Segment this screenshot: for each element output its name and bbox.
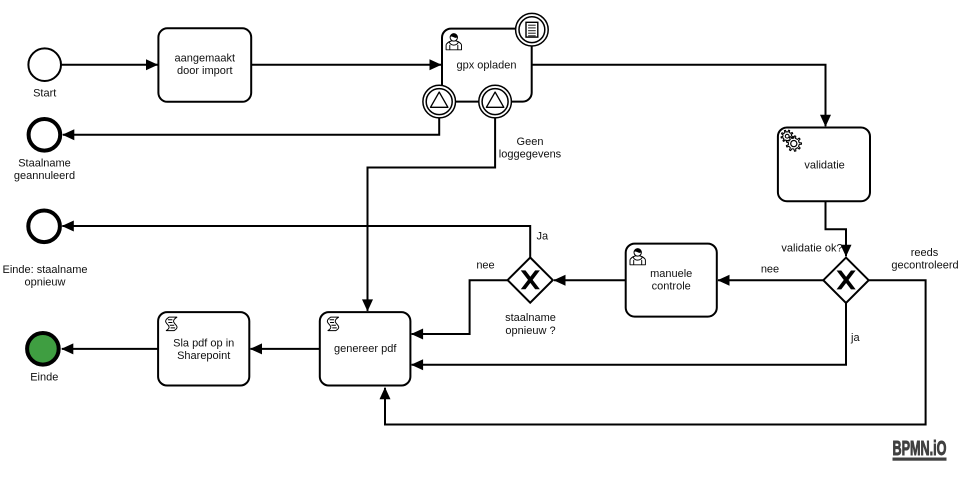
end event Staalname geannuleerd: [29, 119, 61, 151]
boundary event signal 1 (on gpx opladen): [423, 85, 456, 118]
end event Einde (green): [27, 333, 59, 365]
wire gateway staalname opnieuw to Einde staalname opnieuw (Ja): [62, 226, 530, 258]
gateway validatie ok? (exclusive): [823, 258, 868, 303]
start event Start: [28, 48, 61, 81]
svg-text:aangemaakt: aangemaakt: [175, 52, 236, 64]
svg-text:ja: ja: [850, 332, 860, 344]
logo BPMN.iO: [893, 437, 947, 461]
icon script (Sla pdf): [166, 317, 177, 330]
svg-text:Ja: Ja: [537, 231, 550, 243]
icon user (gpx opladen): [446, 33, 461, 50]
wire aangemaakt door import to gpx opladen: [251, 64, 441, 66]
gateway staalname opnieuw? (exclusive): [508, 258, 553, 303]
wire gpx opladen to validatie: [532, 65, 826, 127]
task genereer pdf (script task): [320, 312, 411, 385]
wire validatie to gateway validatie ok: [826, 201, 847, 256]
svg-text:door import: door import: [177, 65, 233, 77]
task gpx opladen (user task): [442, 29, 532, 102]
task Sla pdf op in Sharepoint (script task): [158, 312, 249, 385]
svg-text:staalname: staalname: [505, 312, 556, 324]
task manuele controle (user task): [626, 244, 717, 317]
wire gateway staalname opnieuw to genereer pdf (nee): [412, 280, 508, 334]
wire genereer pdf to Sla pdf op in Sharepoint: [251, 348, 320, 350]
svg-text:Einde: Einde: [30, 372, 58, 384]
end event Einde: staalname opnieuw: [28, 211, 60, 243]
svg-text:gecontroleerd: gecontroleerd: [891, 259, 958, 271]
svg-text:controle: controle: [652, 280, 691, 292]
svg-text:opnieuw: opnieuw: [25, 276, 66, 288]
task validatie (service task): [778, 128, 870, 202]
svg-text:genereer pdf: genereer pdf: [334, 343, 397, 355]
icon service gears (validatie): [781, 130, 801, 151]
svg-text:nee: nee: [761, 264, 779, 276]
boundary event conditional (on gpx opladen): [516, 13, 549, 46]
svg-text:validatie ok?: validatie ok?: [781, 243, 842, 255]
wire signal boundary 2 to genereer pdf (Geen loggegevens): [368, 118, 496, 311]
svg-text:nee: nee: [476, 260, 494, 272]
svg-text:loggegevens: loggegevens: [499, 148, 562, 160]
wire gateway validatie ok to genereer pdf bottom (reeds gecontroleerd): [385, 280, 926, 424]
svg-text:Staalname: Staalname: [18, 158, 71, 170]
svg-text:validatie: validatie: [804, 159, 844, 171]
svg-text:Sharepoint: Sharepoint: [177, 350, 230, 362]
wire Sla pdf op in Sharepoint to Einde: [62, 348, 158, 350]
wire signal boundary 1 to Staalname geannuleerd: [63, 118, 439, 135]
svg-text:opnieuw ?: opnieuw ?: [505, 325, 555, 337]
svg-text:Einde: staalname: Einde: staalname: [3, 264, 88, 276]
icon user (manuele controle): [630, 248, 645, 265]
wire Start to aangemaakt door import: [62, 64, 158, 66]
task aangemaakt door import: [158, 28, 251, 102]
svg-text:reeds: reeds: [911, 247, 939, 259]
svg-text:Geen: Geen: [517, 136, 544, 148]
svg-text:BPMN.iO: BPMN.iO: [893, 437, 947, 460]
svg-text:manuele: manuele: [650, 268, 692, 280]
wire gateway validatie ok to genereer pdf (ja): [412, 303, 846, 365]
icon script (genereer pdf): [327, 317, 338, 330]
svg-text:Start: Start: [33, 88, 56, 100]
wire manuele controle to gateway staalname opnieuw: [554, 279, 626, 281]
wire gateway validatie ok to manuele controle (nee): [718, 279, 823, 281]
svg-text:geannuleerd: geannuleerd: [14, 170, 75, 182]
svg-text:Sla pdf op in: Sla pdf op in: [173, 338, 234, 350]
boundary event signal 2 (on gpx opladen): [479, 85, 512, 118]
svg-text:gpx opladen: gpx opladen: [457, 59, 517, 71]
